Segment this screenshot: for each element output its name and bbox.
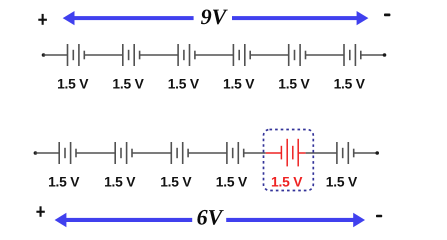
- svg-text:1.5 V: 1.5 V: [271, 175, 303, 190]
- svg-text:1.5 V: 1.5 V: [168, 76, 200, 91]
- wire row2 B9 to next: [188, 152, 227, 154]
- svg-text:1.5 V: 1.5 V: [326, 175, 358, 190]
- highlight box around reversed battery B11 (blue dotted): [264, 130, 314, 191]
- wire row1 B5 to B6: [306, 54, 345, 56]
- plus sign top (+): [38, 14, 47, 25]
- node dot left row1: [42, 53, 46, 57]
- svg-text:1.5 V: 1.5 V: [57, 76, 89, 91]
- wire row2 from B12 to right node: [354, 152, 378, 154]
- value label 1.5 V for B6: [334, 76, 366, 91]
- label 9V: [201, 4, 229, 29]
- svg-text:1.5 V: 1.5 V: [223, 76, 255, 91]
- svg-text:1.5 V: 1.5 V: [104, 175, 136, 190]
- wire row2 red lead left of reversed battery B11: [266, 152, 282, 154]
- battery B7 (1.5 V cell, row 2): [59, 142, 76, 164]
- minus sign bottom (-): [376, 215, 382, 218]
- svg-text:1.5 V: 1.5 V: [48, 175, 80, 190]
- wire row1 from left node to B1: [44, 54, 68, 56]
- svg-text:1.5 V: 1.5 V: [160, 175, 192, 190]
- 9V measurement arrow right half: [232, 11, 368, 25]
- wire row1 B3 to B4: [195, 54, 234, 56]
- value label 1.5 V for B10: [216, 175, 248, 190]
- battery B6 (1.5 V cell, row 1): [344, 44, 361, 66]
- value label 1.5 V for B2: [112, 76, 144, 91]
- wire row2 B10 to next: [244, 152, 266, 154]
- value label 1.5 V for B12: [326, 175, 358, 190]
- 6V measurement arrow left half: [55, 213, 193, 227]
- battery B8 (1.5 V cell, row 2): [115, 142, 132, 164]
- wire row2 B8 to next: [132, 152, 171, 154]
- value label 1.5 V for B3: [168, 76, 200, 91]
- svg-text:1.5 V: 1.5 V: [216, 175, 248, 190]
- battery B11 reversed 1.5 V cell (red): [281, 139, 298, 167]
- battery B5 (1.5 V cell, row 1): [289, 44, 306, 66]
- value label 1.5 V for B11 (red): [271, 175, 303, 190]
- node dot right row2: [375, 151, 379, 155]
- svg-text:1.5 V: 1.5 V: [334, 76, 366, 91]
- battery B2 (1.5 V cell, row 1): [123, 44, 140, 66]
- node dot right row1: [383, 53, 387, 57]
- wire row2 B7 to next: [76, 152, 115, 154]
- plus sign bottom (+): [36, 206, 44, 217]
- 6V measurement arrow right half: [226, 213, 365, 227]
- wire row2 from red lead to B12: [306, 152, 337, 154]
- value label 1.5 V for B9: [160, 175, 192, 190]
- battery B3 (1.5 V cell, row 1): [178, 44, 195, 66]
- wire row2 from left node to B7: [35, 152, 59, 154]
- wire row1 from B6 to right node: [361, 54, 385, 56]
- battery B9 (1.5 V cell, row 2): [171, 142, 188, 164]
- minus sign top (-): [384, 14, 390, 17]
- value label 1.5 V for B4: [223, 76, 255, 91]
- svg-text:1.5 V: 1.5 V: [112, 76, 144, 91]
- battery B10 (1.5 V cell, row 2): [227, 142, 244, 164]
- label 6V: [197, 204, 225, 229]
- svg-text:9V: 9V: [201, 4, 229, 29]
- wire row1 B1 to B2: [84, 54, 123, 56]
- battery B12 (1.5 V cell, row 2): [337, 142, 354, 164]
- value label 1.5 V for B7: [48, 175, 80, 190]
- battery B4 (1.5 V cell, row 1): [233, 44, 250, 66]
- value label 1.5 V for B8: [104, 175, 136, 190]
- 9V measurement arrow left half: [63, 11, 194, 25]
- svg-text:6V: 6V: [197, 204, 225, 229]
- wire row1 B4 to B5: [250, 54, 289, 56]
- wire row1 B2 to B3: [140, 54, 179, 56]
- value label 1.5 V for B1: [57, 76, 89, 91]
- wire row2 red lead right of reversed battery B11: [298, 152, 306, 154]
- svg-text:1.5 V: 1.5 V: [278, 76, 310, 91]
- node dot left row2: [34, 151, 38, 155]
- battery B1 (1.5 V cell, row 1): [68, 44, 85, 66]
- value label 1.5 V for B5: [278, 76, 310, 91]
